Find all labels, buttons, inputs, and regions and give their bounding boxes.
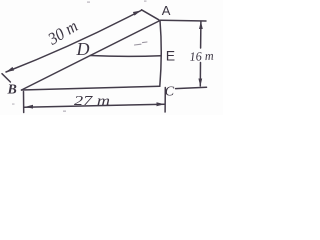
arrowhead 27 m left	[25, 105, 33, 109]
extension tick below C (right end of 27 m dimension)	[164, 88, 166, 113]
svg-text:D: D	[76, 39, 90, 59]
svg-text:E: E	[166, 48, 175, 64]
extension tick below B (left end of 27 m dimension)	[23, 92, 25, 113]
paper specks	[12, 1, 147, 112]
svg-text:16 m: 16 m	[189, 49, 214, 64]
tick at B end of 30 m dimension	[2, 74, 10, 82]
side AC (right vertical)	[160, 21, 161, 87]
svg-text:A: A	[162, 3, 171, 18]
connector from 30 m dimension arrow to apex A	[142, 10, 159, 20]
dimension line 16 m (lower segment)	[199, 63, 201, 87]
side BC (base)	[22, 86, 160, 90]
arrowhead 30 m lower (at B end)	[6, 67, 14, 72]
dimension line 16 m (upper segment)	[200, 22, 202, 49]
svg-text:C: C	[165, 84, 175, 99]
segment DE	[90, 55, 161, 58]
extension tick right of A (top of 16 m dimension)	[161, 19, 207, 22]
side BA (hypotenuse, B to A)	[22, 21, 161, 91]
arrowhead 16 m down	[198, 79, 202, 87]
faint dashed mark above DE	[135, 42, 148, 45]
arrowhead 30 m upper (at A end)	[133, 11, 141, 16]
svg-text:B: B	[7, 82, 17, 97]
dimension line 27 m	[24, 104, 165, 107]
arrowhead 27 m right	[157, 102, 165, 106]
extension tick right of C (bottom of 16 m dimension)	[176, 87, 207, 88]
arrowhead 16 m up	[199, 21, 203, 29]
svg-text:27 m: 27 m	[74, 93, 110, 108]
dimension line 30 m	[6, 11, 141, 73]
